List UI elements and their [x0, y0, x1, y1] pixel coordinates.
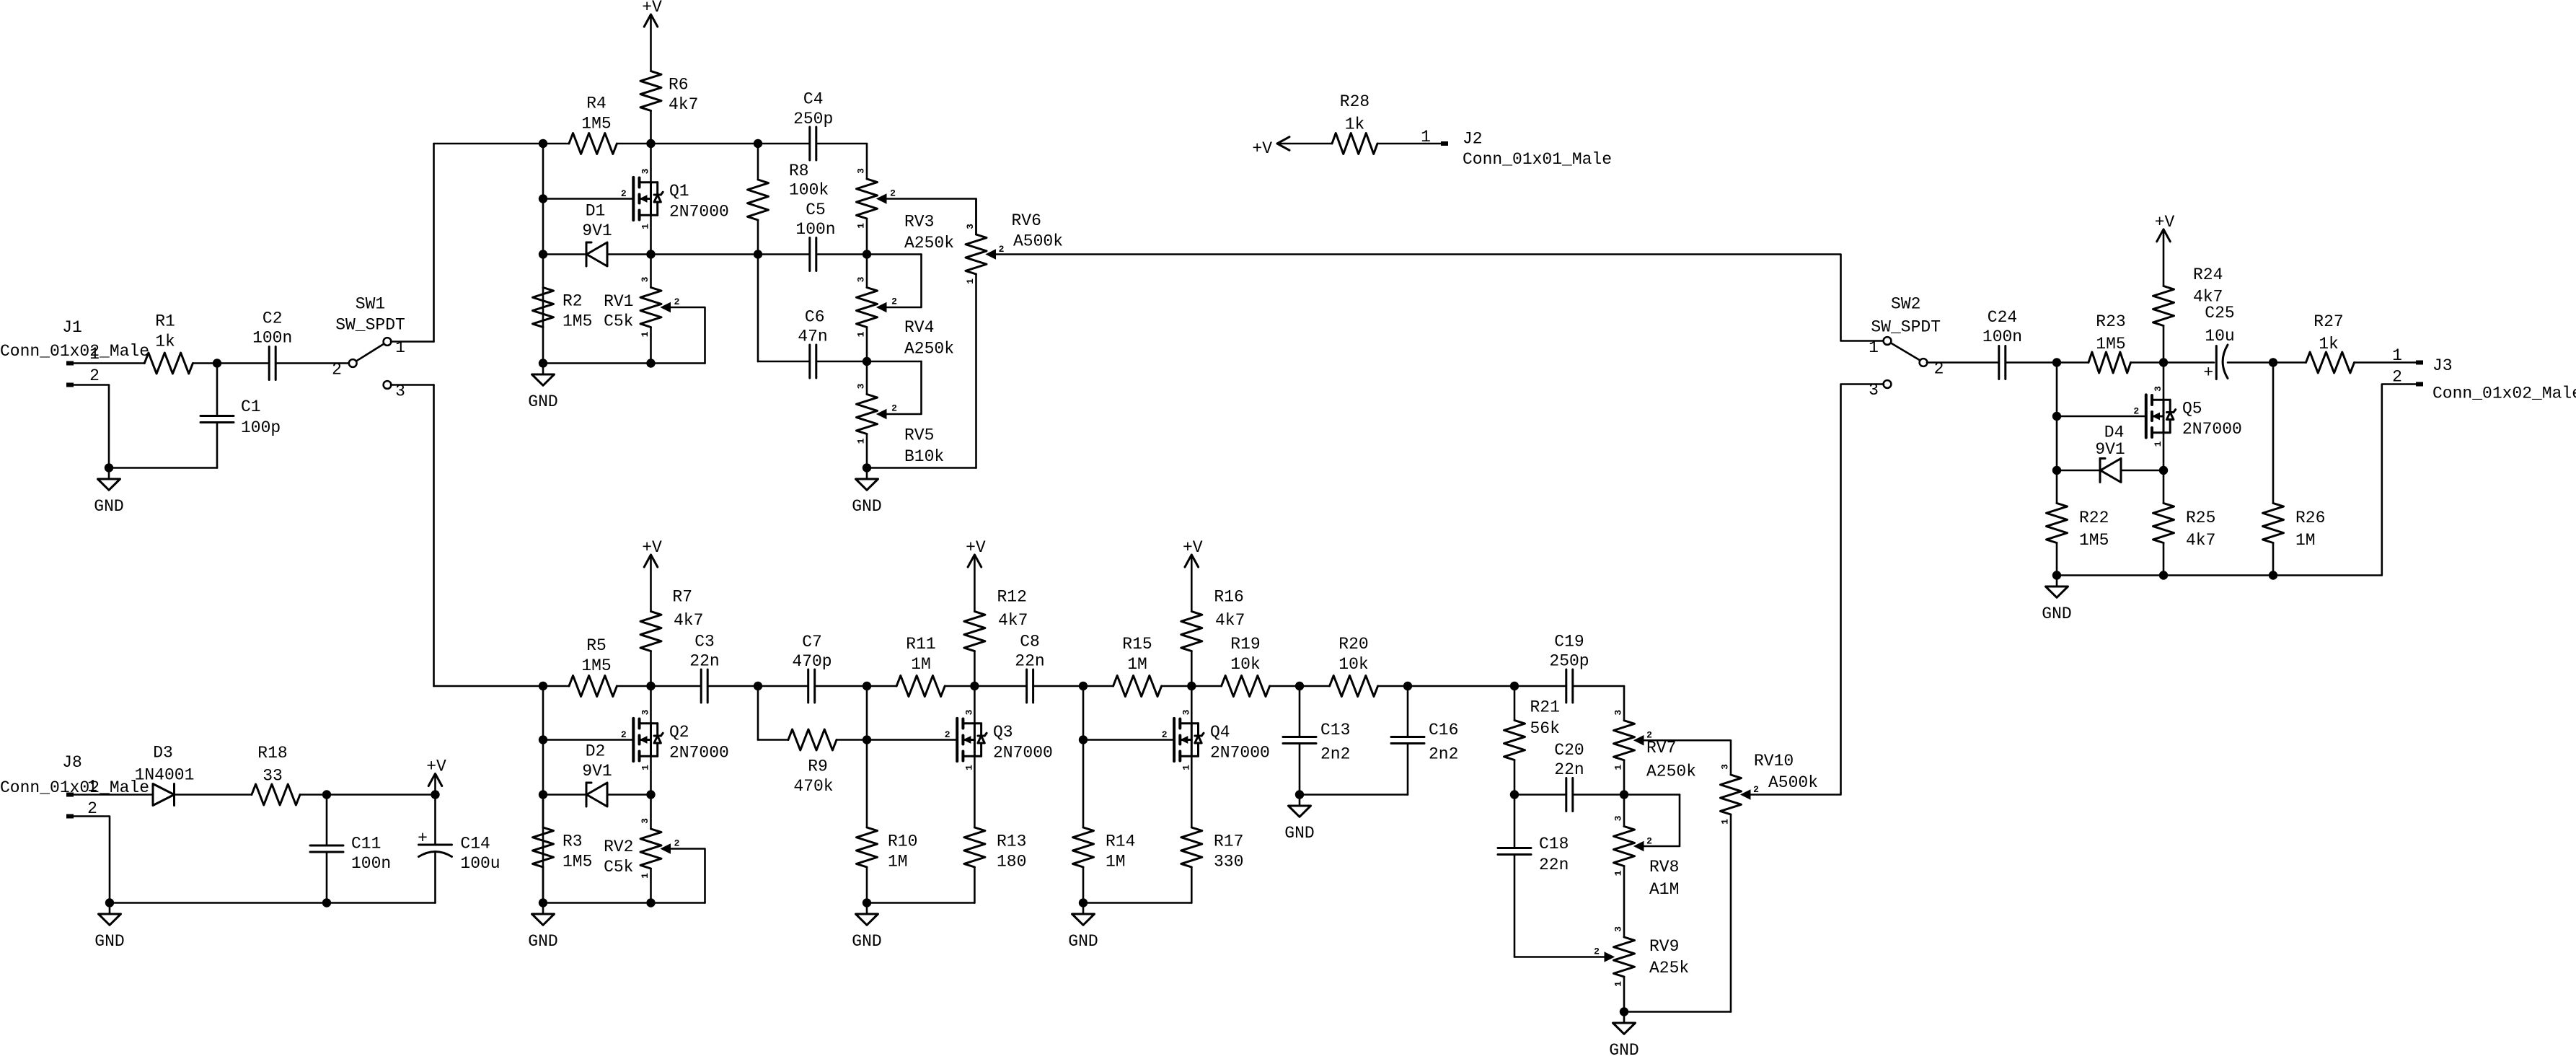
svg-text:1: 1 — [640, 224, 651, 229]
junction R24 bottom — [2159, 358, 2168, 366]
junction right bottom R22 — [2052, 571, 2061, 579]
junction RV5 bottom — [863, 463, 871, 472]
ground GND (C13) — [1284, 795, 1314, 843]
svg-text:R4: R4 — [586, 95, 606, 113]
junction R9 right — [863, 735, 871, 744]
svg-text:1M5: 1M5 — [2096, 335, 2125, 353]
svg-text:+V: +V — [1183, 538, 1203, 557]
wire diode row — [543, 253, 922, 255]
svg-text:100n: 100n — [252, 329, 292, 348]
wire right bottom row — [2057, 574, 2273, 576]
svg-text:330: 330 — [1214, 853, 1243, 871]
potentiometer RV7 A250k — [1613, 710, 1732, 795]
svg-text:SW_SPDT: SW_SPDT — [1871, 318, 1941, 337]
svg-text:22n: 22n — [1015, 652, 1044, 671]
svg-text:2: 2 — [1162, 729, 1168, 740]
svg-text:RV5: RV5 — [904, 426, 934, 445]
junction Q2 diode node — [539, 790, 547, 799]
svg-text:+V: +V — [642, 0, 662, 17]
svg-text:R22: R22 — [2079, 509, 2109, 527]
svg-text:1M: 1M — [1106, 853, 1126, 871]
junction C11 bottom — [322, 898, 331, 907]
svg-text:3: 3 — [1613, 926, 1624, 932]
junction lower row R11 left — [863, 682, 871, 690]
wire R14 node vertical — [1082, 686, 1085, 827]
potentiometer RV5 B10k — [856, 361, 945, 468]
svg-text:1M: 1M — [1127, 655, 1147, 674]
svg-text:1M5: 1M5 — [563, 853, 592, 871]
svg-text:RV10: RV10 — [1754, 752, 1794, 770]
svg-text:1M5: 1M5 — [2079, 531, 2109, 550]
junction node B gate — [2052, 412, 2061, 421]
svg-text:2n2: 2n2 — [1429, 745, 1458, 764]
svg-text:+V: +V — [966, 538, 986, 557]
svg-text:Q1: Q1 — [669, 182, 689, 201]
wire right main row — [2057, 361, 2306, 364]
resistor R3 1M5 — [533, 795, 593, 903]
svg-text:250p: 250p — [1549, 652, 1589, 671]
svg-text:2: 2 — [621, 729, 627, 740]
svg-text:56k: 56k — [1530, 719, 1560, 738]
capacitor C24 100n — [1982, 308, 2022, 379]
junction right bottom R25 — [2159, 571, 2168, 579]
resistor R11 1M — [896, 635, 945, 697]
svg-text:GND: GND — [528, 932, 557, 951]
ground GND (Q2 cell) — [528, 903, 557, 952]
svg-text:B10k: B10k — [904, 447, 944, 466]
resistor R18 33 — [252, 744, 300, 805]
capacitor C5 100n — [795, 201, 835, 271]
svg-text:2: 2 — [1753, 784, 1759, 795]
svg-text:GND: GND — [1068, 932, 1098, 951]
resistor R2 1M5 — [533, 288, 593, 331]
svg-text:2: 2 — [89, 366, 100, 385]
junction top row A — [539, 139, 547, 148]
svg-text:+: + — [2203, 364, 2213, 382]
wire C2 to SW1 pin2 — [275, 362, 349, 364]
junction lower row Q3 drain — [970, 682, 979, 690]
svg-text:C16: C16 — [1429, 721, 1458, 739]
svg-text:1M: 1M — [2295, 531, 2316, 550]
ground GND (R10) — [852, 903, 881, 952]
wire C18 to RV9 wiper — [1514, 956, 1606, 958]
zener D2 9V1 — [582, 742, 612, 807]
resistor R15 1M — [1113, 635, 1162, 697]
svg-text:10k: 10k — [1338, 655, 1368, 674]
wire lower main row — [543, 686, 1624, 721]
svg-text:RV8: RV8 — [1649, 858, 1679, 876]
svg-text:Conn_01x02_Male: Conn_01x02_Male — [2432, 385, 2576, 403]
svg-text:A500k: A500k — [1768, 773, 1818, 792]
svg-text:RV7: RV7 — [1646, 739, 1676, 757]
resistor R1 1k — [144, 312, 193, 374]
capacitor C25 10u — [2203, 304, 2234, 382]
svg-text:+: + — [418, 829, 428, 848]
wire C24 to node B — [2006, 361, 2057, 364]
resistor R27 1k — [2306, 312, 2355, 373]
svg-text:4k7: 4k7 — [674, 611, 703, 630]
junction lower row C13 — [1295, 682, 1304, 690]
svg-text:100k: 100k — [789, 181, 829, 200]
svg-text:GND: GND — [94, 932, 124, 951]
svg-text:RV9: RV9 — [1649, 937, 1679, 956]
svg-text:R1: R1 — [155, 312, 175, 331]
capacitor C13 2n2 — [1283, 686, 1350, 795]
junction RV2 bottom — [646, 898, 655, 907]
capacitor C2 100n — [252, 309, 292, 380]
svg-text:100u: 100u — [460, 854, 500, 873]
svg-text:Q5: Q5 — [2182, 400, 2202, 418]
svg-text:R14: R14 — [1106, 832, 1135, 851]
power +V (R7) — [642, 538, 662, 612]
resistor R14 1M — [1073, 827, 1136, 903]
wire R9 branch — [758, 686, 867, 740]
wire top row — [434, 144, 868, 179]
svg-text:9V1: 9V1 — [582, 762, 612, 781]
wire RV6 wiper to SW2 pin1 — [994, 255, 1884, 341]
resistor R24 4k7 — [2153, 265, 2223, 363]
potentiometer RV3 A250k — [856, 168, 976, 255]
transistor Q4 2N7000 — [1162, 686, 1270, 827]
svg-text:+V: +V — [1252, 139, 1272, 158]
wire D2 row — [543, 794, 651, 796]
svg-text:2N7000: 2N7000 — [993, 744, 1053, 763]
svg-text:3: 3 — [856, 276, 867, 282]
svg-text:1: 1 — [1613, 765, 1624, 770]
wire RV5 bottom to RV6 pin1 — [867, 274, 976, 468]
wire D4 row — [2057, 470, 2163, 472]
svg-text:R16: R16 — [1214, 588, 1243, 607]
resistor R19 10k — [1222, 635, 1270, 697]
junction top row Q1 drain — [646, 139, 655, 148]
svg-text:R5: R5 — [586, 636, 606, 655]
svg-text:33: 33 — [263, 767, 283, 786]
svg-text:3: 3 — [1613, 815, 1624, 821]
svg-text:3: 3 — [1613, 710, 1624, 716]
svg-text:1: 1 — [1869, 338, 1879, 357]
svg-text:R26: R26 — [2295, 509, 2325, 527]
junction C25 right — [2269, 358, 2277, 366]
svg-text:C13: C13 — [1320, 721, 1350, 739]
transistor Q1 2N7000 — [621, 144, 729, 255]
svg-text:1: 1 — [1613, 981, 1624, 987]
svg-text:3: 3 — [640, 709, 651, 715]
svg-text:1: 1 — [87, 778, 97, 796]
ground GND (Q1 cell) — [528, 364, 557, 412]
svg-text:3: 3 — [640, 168, 651, 174]
resistor R22 1M5 — [2047, 470, 2109, 576]
svg-text:3: 3 — [1720, 764, 1731, 770]
resistor R5 1M5 — [569, 636, 617, 697]
svg-text:Q3: Q3 — [993, 723, 1013, 742]
svg-text:1: 1 — [856, 223, 867, 229]
wire SW1 pin1 riser — [391, 144, 434, 342]
svg-text:D2: D2 — [586, 742, 606, 761]
potentiometer RV2 C5k — [604, 795, 705, 903]
svg-text:2: 2 — [87, 799, 97, 818]
svg-text:Q4: Q4 — [1210, 723, 1230, 742]
resistor R13 180 — [867, 827, 1026, 903]
potentiometer RV4 A250k — [856, 255, 955, 362]
svg-text:100n: 100n — [1982, 328, 2022, 346]
svg-text:3: 3 — [1181, 709, 1191, 715]
svg-text:3: 3 — [856, 168, 867, 174]
wire R28 to J2 — [1377, 128, 1441, 146]
capacitor C4 250p — [793, 90, 833, 160]
junction lower row Q2 cell — [539, 682, 547, 690]
junction node B diode — [2052, 466, 2061, 475]
resistor R21 56k — [1504, 686, 1560, 795]
svg-text:2n2: 2n2 — [1320, 745, 1350, 764]
svg-text:SW2: SW2 — [1891, 295, 1920, 314]
ground GND (RV5) — [852, 468, 881, 517]
resistor R12 4k7 — [964, 588, 1028, 687]
resistor R9 470k — [788, 729, 837, 796]
svg-text:22n: 22n — [1539, 856, 1569, 874]
junction right bottom R26 — [2269, 571, 2277, 579]
diode D3 1N4001 — [135, 744, 195, 806]
resistor R23 1M5 — [2088, 312, 2131, 373]
ground GND (J8) — [94, 903, 124, 952]
svg-text:1: 1 — [640, 331, 650, 337]
junction diode row RV3 — [863, 250, 871, 258]
svg-text:C4: C4 — [803, 90, 824, 109]
wire J8 pin2 to GND — [74, 817, 436, 903]
svg-text:3: 3 — [965, 224, 976, 229]
wire J8 pin1 to D3 — [74, 794, 153, 796]
svg-text:Q2: Q2 — [669, 723, 689, 742]
svg-text:R21: R21 — [1530, 698, 1560, 717]
junction lower row R7 — [646, 682, 655, 690]
connector J3 Conn_01x02_Male — [2392, 356, 2576, 403]
svg-text:R8: R8 — [789, 162, 809, 180]
svg-text:1: 1 — [1421, 128, 1431, 146]
junction J8 GND — [105, 898, 114, 907]
svg-text:C5: C5 — [806, 201, 826, 219]
svg-text:9V1: 9V1 — [582, 221, 612, 240]
svg-text:+V: +V — [2155, 213, 2175, 232]
svg-text:3: 3 — [963, 709, 974, 715]
svg-text:3: 3 — [640, 276, 650, 282]
connector J8 Conn_01x02_Male — [0, 753, 149, 819]
svg-text:RV4: RV4 — [904, 318, 934, 337]
wire Q5 gate — [2057, 416, 2146, 418]
resistor R20 10k — [1330, 635, 1378, 697]
svg-text:1: 1 — [1613, 870, 1624, 876]
ground GND (R14) — [1068, 903, 1098, 952]
junction Q4 gate node — [1079, 735, 1088, 744]
svg-text:2: 2 — [945, 729, 950, 740]
capacitor C16 2n2 — [1391, 686, 1458, 795]
svg-text:2N7000: 2N7000 — [669, 203, 729, 221]
svg-text:2: 2 — [332, 361, 342, 379]
svg-text:+V: +V — [426, 757, 446, 776]
svg-text:180: 180 — [997, 853, 1026, 871]
transistor Q5 2N7000 — [2133, 363, 2241, 471]
svg-text:RV1: RV1 — [604, 292, 633, 311]
svg-text:J2: J2 — [1463, 130, 1483, 149]
svg-text:GND: GND — [528, 392, 557, 411]
svg-text:10k: 10k — [1230, 655, 1260, 674]
capacitor C18 22n — [1498, 795, 1569, 957]
junction lower row C16 — [1403, 682, 1412, 690]
svg-text:R15: R15 — [1122, 635, 1152, 654]
ground GND (J1) — [94, 468, 123, 517]
svg-text:1M: 1M — [911, 655, 931, 674]
svg-text:R23: R23 — [2096, 312, 2125, 331]
svg-text:1: 1 — [640, 873, 650, 879]
svg-text:2: 2 — [621, 188, 627, 199]
svg-text:GND: GND — [1284, 824, 1314, 843]
svg-text:A25k: A25k — [1649, 959, 1689, 977]
junction R10 bottom — [863, 898, 871, 907]
svg-text:C20: C20 — [1554, 741, 1584, 760]
svg-text:4k7: 4k7 — [998, 611, 1028, 630]
svg-text:R27: R27 — [2313, 312, 2343, 331]
svg-text:100n: 100n — [351, 854, 391, 873]
svg-text:R7: R7 — [672, 588, 692, 607]
transistor Q2 2N7000 — [621, 686, 729, 795]
svg-text:1: 1 — [2392, 346, 2402, 365]
capacitor C6 47n — [798, 308, 827, 379]
svg-text:2: 2 — [891, 296, 897, 307]
svg-text:R11: R11 — [906, 635, 935, 654]
wire Q2 bottom row — [543, 902, 705, 904]
svg-text:C1: C1 — [241, 397, 261, 416]
svg-text:1: 1 — [640, 765, 651, 770]
resistor R25 4k7 — [2153, 470, 2216, 576]
capacitor C20 22n — [1554, 741, 1584, 812]
junction C20 right — [1620, 790, 1628, 799]
switch SW1 SW_SPDT — [332, 295, 405, 401]
capacitor C8 22n — [1015, 633, 1044, 703]
junction node A bottom — [539, 359, 547, 367]
svg-text:1k: 1k — [2319, 335, 2339, 353]
junction C14 top — [431, 790, 439, 799]
svg-text:1N4001: 1N4001 — [135, 766, 195, 785]
svg-text:3: 3 — [640, 818, 650, 824]
svg-text:1: 1 — [856, 331, 867, 337]
wire SW2 pin3 to RV10 wiper — [1749, 385, 1884, 795]
svg-text:R6: R6 — [669, 76, 689, 95]
svg-text:R13: R13 — [997, 832, 1026, 851]
svg-text:A1M: A1M — [1649, 880, 1679, 899]
svg-text:+V: +V — [642, 538, 662, 557]
resistor R4 1M5 — [569, 95, 617, 154]
resistor R7 4k7 — [640, 588, 703, 687]
svg-text:R28: R28 — [1340, 92, 1369, 111]
svg-text:100n: 100n — [795, 220, 835, 239]
capacitor C3 22n — [689, 633, 719, 703]
junction node A gate — [539, 194, 547, 203]
junction lower row C8 right — [1079, 682, 1088, 690]
svg-text:1: 1 — [1720, 819, 1731, 825]
svg-text:R24: R24 — [2193, 265, 2223, 284]
resistor R10 1M — [857, 827, 918, 903]
svg-text:Conn_01x02_Male: Conn_01x02_Male — [0, 342, 149, 361]
svg-text:RV2: RV2 — [604, 838, 633, 856]
svg-text:3: 3 — [856, 383, 867, 389]
svg-text:C2: C2 — [263, 309, 283, 328]
junction node A diode — [539, 250, 547, 258]
junction top row R8 — [754, 139, 762, 148]
svg-text:2N7000: 2N7000 — [2182, 420, 2242, 439]
wire J3 pin2 down — [2273, 385, 2416, 576]
wire J1 pin2 to GND — [74, 385, 217, 468]
junction C11 top — [322, 790, 331, 799]
wire C13-C16 bottom — [1300, 794, 1408, 796]
junction C6 row RV5 — [863, 357, 871, 366]
svg-text:1: 1 — [963, 765, 974, 770]
svg-text:C11: C11 — [351, 835, 381, 853]
svg-text:C5k: C5k — [604, 858, 633, 876]
capacitor C11 100n — [310, 795, 391, 903]
junction diode row R8 — [754, 250, 762, 258]
zener D1 9V1 — [582, 202, 612, 267]
svg-text:2: 2 — [891, 403, 897, 414]
svg-text:2: 2 — [1594, 946, 1600, 957]
svg-text:R17: R17 — [1214, 832, 1243, 851]
junction lower row Q4 drain — [1187, 682, 1196, 690]
wire C20 row — [1514, 794, 1680, 796]
junction Q2 gate node — [539, 735, 547, 744]
svg-text:R2: R2 — [563, 292, 583, 311]
junction C20 left — [1510, 790, 1519, 799]
svg-text:2N7000: 2N7000 — [669, 744, 729, 763]
capacitor C1 100p — [200, 364, 281, 468]
svg-text:A250k: A250k — [1646, 763, 1696, 781]
resistor R28 1k — [1332, 92, 1377, 154]
svg-text:1: 1 — [856, 438, 867, 444]
junction node C1 top — [213, 359, 221, 367]
svg-text:R20: R20 — [1338, 635, 1368, 654]
svg-text:470k: 470k — [793, 777, 833, 796]
svg-text:GND: GND — [852, 497, 881, 516]
svg-text:J8: J8 — [62, 753, 82, 772]
svg-text:C18: C18 — [1539, 835, 1569, 853]
wire J1 pin1 to R1 — [74, 362, 144, 364]
svg-text:9V1: 9V1 — [2095, 440, 2125, 459]
svg-text:RV6: RV6 — [1012, 211, 1041, 230]
svg-text:2: 2 — [1646, 836, 1652, 847]
svg-text:Conn_01x01_Male: Conn_01x01_Male — [1463, 150, 1612, 169]
svg-text:D4: D4 — [2104, 423, 2125, 442]
svg-text:470p: 470p — [792, 652, 832, 671]
svg-text:A250k: A250k — [904, 340, 954, 359]
svg-text:R10: R10 — [888, 832, 917, 851]
power +V (R6) — [642, 0, 662, 71]
svg-text:4k7: 4k7 — [669, 95, 698, 114]
svg-text:C7: C7 — [802, 633, 822, 651]
svg-text:C3: C3 — [694, 633, 715, 651]
power +V (R24) — [2155, 213, 2175, 286]
svg-text:1M5: 1M5 — [581, 115, 611, 133]
svg-text:2: 2 — [2133, 405, 2139, 416]
svg-text:100p: 100p — [241, 418, 281, 437]
wire D3 to R18 — [175, 794, 252, 796]
wire C6 branch — [758, 255, 922, 362]
svg-text:1: 1 — [2153, 441, 2163, 447]
potentiometer RV8 A1M — [1613, 795, 1680, 938]
svg-text:R25: R25 — [2186, 509, 2215, 527]
svg-text:1M: 1M — [888, 853, 908, 871]
svg-text:3: 3 — [2153, 386, 2163, 392]
svg-text:2: 2 — [890, 188, 896, 199]
wire Q3 gate — [867, 739, 957, 741]
svg-text:R19: R19 — [1230, 635, 1260, 654]
svg-text:R3: R3 — [563, 832, 583, 851]
svg-text:J3: J3 — [2432, 356, 2453, 375]
